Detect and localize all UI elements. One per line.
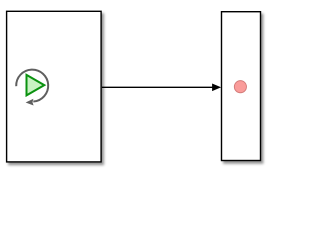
process box B1 (left) — [7, 11, 102, 162]
loop arrowhead of play icon — [26, 99, 34, 106]
state box B2 (right) — [222, 12, 261, 161]
red state dot — [234, 81, 246, 93]
loop arc of play icon — [16, 70, 48, 102]
connector wire — [102, 86, 213, 88]
green play triangle — [27, 75, 45, 96]
connector arrowhead — [213, 84, 220, 90]
